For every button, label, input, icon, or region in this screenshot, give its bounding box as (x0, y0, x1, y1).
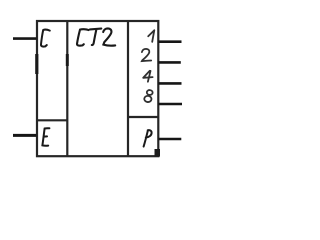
divider above P cell (128, 116, 158, 118)
ink blob bottom-right corner (155, 149, 161, 157)
divider left column (66, 21, 68, 156)
label 1 (output weight 1) (148, 30, 154, 42)
label CT2 (77, 28, 115, 45)
ink blob on divider 1 (66, 54, 69, 66)
label 4 (output weight 4) (143, 71, 152, 82)
pin P wire (158, 138, 181, 141)
paper background (0, 0, 207, 168)
ink blob on left edge (35, 54, 38, 74)
label C (clock input) (41, 30, 50, 47)
pin 8 wire (158, 103, 182, 106)
counter U1 outline (37, 21, 158, 156)
pin C wire (13, 37, 37, 40)
divider above E cell (37, 119, 68, 121)
pin E wire (13, 134, 37, 137)
divider right column (127, 21, 129, 156)
label 2 (output weight 2) (142, 49, 151, 61)
label P (carry output) (144, 130, 152, 146)
pin 1 wire (158, 40, 181, 43)
label 8 (output weight 8) (144, 90, 153, 103)
pin 2 wire (158, 61, 181, 64)
pin 4 wire (158, 82, 181, 85)
label E (enable input) (42, 128, 49, 146)
